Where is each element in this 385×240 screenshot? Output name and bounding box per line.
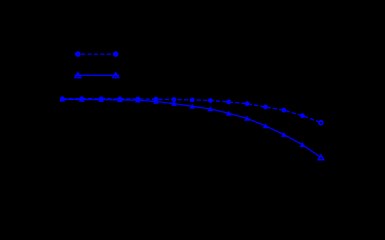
series 1 curve (dashed line, circle markers)	[62, 99, 321, 123]
legend entry 2 marker right (open triangle)	[113, 73, 119, 78]
legend entry 2 marker left (open triangle)	[75, 73, 81, 78]
legend entry 1 line (dashed)	[75, 53, 119, 55]
series 2 curve (solid line, triangle markers)	[62, 99, 321, 157]
legend entry 1 marker left (open circle)	[76, 52, 80, 56]
series 2 triangle markers	[59, 97, 323, 160]
series 1 circle markers	[60, 96, 323, 124]
legend entry 1 marker right (open circle)	[114, 52, 118, 56]
legend entry 2 line (solid)	[75, 74, 119, 76]
